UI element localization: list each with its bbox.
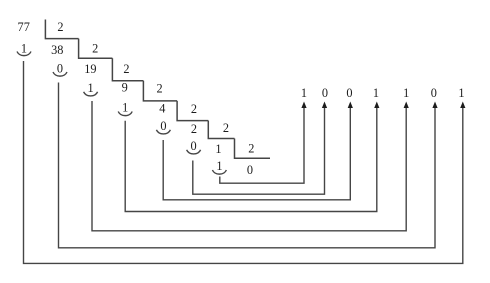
arc under remainder 0 [187,150,201,154]
arc under remainder 1 [118,112,132,116]
arrowhead digit 3 [348,102,353,109]
division bracket step 2 [79,39,113,59]
svg-text:0: 0 [431,86,437,100]
svg-text:1: 1 [21,42,27,56]
wire from remainder 1 (1/2) to MSB digit [220,107,304,183]
svg-text:2: 2 [123,62,129,76]
arc under remainder 0 [53,72,67,76]
division bracket step 1 [45,20,78,39]
arrowhead LSB [460,102,465,109]
svg-text:1: 1 [216,159,222,173]
arc under remainder 1 [212,170,226,174]
svg-text:4: 4 [159,102,165,116]
wire from remainder 1 (77/2) to LSB digit [24,61,463,263]
svg-text:2: 2 [57,20,63,34]
wire from remainder 0 (2/2) to digit 2 [193,107,325,194]
svg-text:1: 1 [301,86,307,100]
arrowhead digit 6 [432,102,437,109]
arc under remainder 0 [156,130,170,134]
wire from remainder 0 (38/2) to digit 6 [59,83,436,248]
svg-text:19: 19 [84,62,96,76]
svg-text:9: 9 [122,81,128,95]
svg-text:1: 1 [373,86,379,100]
svg-text:2: 2 [191,122,197,136]
division bracket step 7 [235,139,271,159]
wire from remainder 1 (19/2) to digit 5 [92,101,406,231]
svg-text:77: 77 [18,20,30,34]
division bracket step 4 [143,81,177,101]
svg-text:1: 1 [88,81,94,95]
svg-text:0: 0 [160,119,166,133]
svg-text:0: 0 [191,139,197,153]
svg-text:1: 1 [403,86,409,100]
svg-text:0: 0 [346,86,352,100]
svg-text:1: 1 [122,101,128,115]
svg-text:0: 0 [322,86,328,100]
svg-text:1: 1 [215,142,221,156]
arrowhead digit 2 [322,102,327,109]
wire from remainder 0 (4/2) to digit 3 [163,107,350,200]
svg-text:2: 2 [191,102,197,116]
svg-text:0: 0 [247,163,253,177]
arc under remainder 1 [17,52,31,56]
svg-text:0: 0 [57,61,63,75]
division bracket step 3 [112,58,143,80]
svg-text:2: 2 [92,42,98,56]
arrowhead digit 5 [404,102,409,109]
svg-text:2: 2 [248,141,254,155]
svg-text:2: 2 [223,121,229,135]
arrowhead digit 4 [374,102,379,109]
division bracket step 6 [208,121,234,139]
svg-text:1: 1 [458,86,464,100]
wire from remainder 1 (9/2) to digit 4 [125,107,377,212]
division bracket step 5 [177,101,208,121]
arc under remainder 1 [84,92,98,96]
svg-text:38: 38 [51,43,63,57]
arrowhead MSB [301,102,306,109]
svg-text:2: 2 [157,82,163,96]
